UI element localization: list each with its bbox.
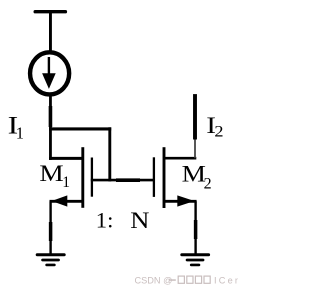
current source I1 (circle) — [30, 52, 69, 94]
svg-text:CSDN @: CSDN @ — [135, 275, 173, 285]
svg-text:M: M — [182, 163, 206, 187]
supply rail bar — [35, 10, 65, 13]
svg-text:ICer: ICer — [214, 275, 240, 285]
transistor M2 source stub — [164, 200, 197, 203]
svg-text:N: N — [130, 208, 149, 233]
wire: rail stem to current source — [49, 12, 52, 53]
transistor M1 gate bar — [91, 158, 93, 197]
wire: M2 source to ground — [194, 201, 196, 255]
svg-text:1: 1 — [16, 123, 24, 142]
transistor M2 gate bar — [153, 157, 155, 197]
wire: thin drain riser to I2 stub — [194, 139, 196, 158]
svg-text:1: 1 — [62, 174, 70, 191]
transistor M2 drain stub — [164, 157, 196, 160]
left ground bold stub — [49, 222, 53, 241]
gate line bold stub — [116, 178, 140, 182]
I1 branch bold stub — [49, 106, 53, 127]
transistor M2 channel bar — [163, 147, 166, 208]
transistor M1 source arrow — [52, 195, 68, 206]
right ground bold stub — [194, 220, 198, 239]
wire: diode-connect vertical down to gate line — [108, 127, 111, 181]
transistor M1 channel bar — [81, 147, 84, 208]
wire: M1 source to ground — [49, 201, 51, 255]
wire: diode-connect horizontal (node to gate) — [49, 127, 111, 130]
transistor M1 source stub — [50, 200, 83, 203]
transistor M2 source arrow — [177, 195, 194, 206]
svg-text:2: 2 — [214, 123, 223, 140]
svg-text::: : — [107, 207, 113, 232]
wire: current source down to drain node of M1 — [49, 96, 52, 160]
watermark — [135, 275, 241, 285]
svg-text:M: M — [39, 162, 63, 186]
transistor M1 drain stub — [49, 157, 83, 160]
svg-text:1: 1 — [96, 207, 107, 232]
current source arrow — [48, 57, 50, 76]
svg-text:2: 2 — [204, 175, 212, 192]
wire: common gate line M1-M2 — [91, 179, 155, 182]
ground (right) — [182, 255, 209, 265]
ground (left) — [37, 255, 64, 265]
I2 branch bold stub — [193, 94, 197, 139]
